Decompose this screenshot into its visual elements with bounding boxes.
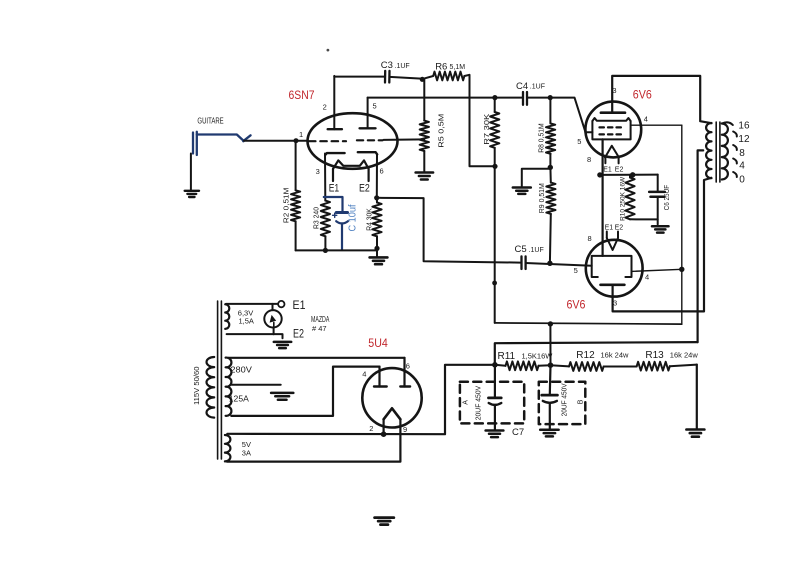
output transformer core xyxy=(715,122,717,182)
ground (pilot/heater winding) xyxy=(274,341,291,344)
node C3/R6/R5 junction xyxy=(420,77,425,82)
5U4 plate pin 4 xyxy=(374,385,387,387)
node R7 top xyxy=(492,95,497,100)
6V6 upper grid box xyxy=(592,121,630,139)
wire R13 end to ground xyxy=(696,365,698,429)
node R9 bottom / C5 junction xyxy=(547,261,552,266)
6V6 upper grid dashes xyxy=(600,127,621,134)
node R8 top xyxy=(548,95,553,100)
wire C4 to 6V6 grid xyxy=(527,98,592,133)
secondary taps xyxy=(722,122,737,177)
wire 5U4 pin 4 to HV bottom tap xyxy=(231,367,379,416)
capacitor C7-A 20UF 450V xyxy=(494,365,496,397)
output transformer center tap xyxy=(698,150,704,342)
power transformer T1 core xyxy=(217,301,219,459)
tube 6V6 V3 (lower) envelope xyxy=(586,240,643,297)
wire pin 6 to R4 top xyxy=(376,155,378,198)
svg-text:C 10uf: C 10uf xyxy=(347,204,359,231)
svg-text:20UF 450V: 20UF 450V xyxy=(475,385,482,420)
svg-text:GUITARE: GUITARE xyxy=(197,117,223,126)
wire screen tap down to B+ node2 xyxy=(549,324,551,365)
svg-text:R4 30K: R4 30K xyxy=(364,208,373,231)
wire B+ rail to OT center tap xyxy=(495,342,698,365)
svg-text:6V6: 6V6 xyxy=(567,300,586,312)
node R3 bottom junction xyxy=(323,248,328,253)
svg-text:16: 16 xyxy=(738,121,750,132)
pilot lamp MAZDA #47 xyxy=(264,310,281,327)
svg-text:E2: E2 xyxy=(615,225,624,232)
ground (cap A) xyxy=(486,429,504,432)
resistor R7 30K xyxy=(494,98,496,112)
node R4 bottom junction xyxy=(374,246,379,251)
wire pin 2 plate to C3 xyxy=(334,76,385,78)
svg-text:R7 30K: R7 30K xyxy=(482,114,491,145)
svg-text:C7: C7 xyxy=(512,427,524,438)
node R8/R9 junction xyxy=(548,165,553,170)
svg-text:.1UF: .1UF xyxy=(395,63,410,70)
dashed enclosure cap B xyxy=(539,382,586,424)
tube 6SN7 V1 envelope xyxy=(308,113,398,169)
wire screen rail horizontal xyxy=(495,323,682,324)
svg-text:8: 8 xyxy=(588,234,592,243)
wire pin 3 to R3 xyxy=(324,154,326,201)
6SN7 plate (triode 1) xyxy=(328,76,342,129)
node lower screen junction xyxy=(679,267,684,272)
svg-text:4: 4 xyxy=(645,272,649,281)
terminal E1 circle xyxy=(278,301,284,307)
6SN7 grid (triode 1, dashed) xyxy=(309,140,346,142)
wire lower screen pin 4 xyxy=(632,269,682,271)
6V6 upper heater xyxy=(605,146,619,158)
guitar input jack J1 xyxy=(193,132,251,155)
node B+ / R11 left xyxy=(492,362,498,368)
wire upper screen pin 4 xyxy=(631,124,682,126)
wire R10 bottom to C6 bottom xyxy=(630,218,658,220)
svg-text:0: 0 xyxy=(739,175,745,186)
svg-text:5: 5 xyxy=(373,102,377,111)
T1 primary winding 115V xyxy=(207,357,215,418)
svg-text:4: 4 xyxy=(739,160,745,171)
svg-text:R6: R6 xyxy=(435,61,447,72)
6V6 lower plate xyxy=(601,283,625,286)
6V6 lower grid box xyxy=(592,256,632,277)
svg-text:4: 4 xyxy=(644,114,648,123)
6SN7 grid (triode 2, dashed) + wire to R5 xyxy=(357,139,383,141)
wire 6V6 cathode line down xyxy=(601,139,603,256)
ground (HV center tap) xyxy=(271,392,293,395)
svg-text:R10 250K 16W: R10 250K 16W xyxy=(619,176,626,221)
svg-text:3A: 3A xyxy=(242,449,251,458)
floating ground (bottom center) xyxy=(375,516,394,519)
svg-text:5V: 5V xyxy=(242,440,251,449)
output transformer T2 primary coil xyxy=(706,123,711,178)
svg-text:MAZDA: MAZDA xyxy=(311,315,330,324)
svg-text:5: 5 xyxy=(574,266,578,275)
wire C3 to R6/R5 junction xyxy=(390,77,424,79)
dashed enclosure cap A xyxy=(460,382,524,424)
resistor R10 250K 16W xyxy=(629,175,631,178)
svg-text:8: 8 xyxy=(587,155,591,164)
capacitor C4 .1UF xyxy=(522,92,524,105)
svg-text:2: 2 xyxy=(369,424,373,433)
svg-text:E2: E2 xyxy=(615,167,624,174)
resistor R12 16k 24w xyxy=(551,365,570,366)
resistor R11 1,5K16W xyxy=(495,365,506,366)
svg-text:B: B xyxy=(577,399,584,404)
node pin 2 junction xyxy=(381,431,387,437)
ground (cap B) xyxy=(540,429,558,432)
svg-text:.1UF: .1UF xyxy=(530,84,545,91)
node R10 top xyxy=(630,172,635,177)
ground (input jack) xyxy=(185,190,199,192)
svg-text:E2: E2 xyxy=(359,182,370,194)
resistor R9 0,51M xyxy=(549,167,551,182)
svg-text:125A: 125A xyxy=(229,395,250,404)
svg-text:5: 5 xyxy=(577,137,581,146)
wire divider tap to ground xyxy=(522,169,551,187)
T1 HV winding 280V xyxy=(226,358,232,416)
svg-text:R12: R12 xyxy=(576,350,595,361)
svg-text:R13: R13 xyxy=(645,350,664,361)
svg-text:6: 6 xyxy=(406,362,410,371)
6SN7 cathode (triode 1) xyxy=(325,153,344,155)
wire R7 bottom down to screen rail xyxy=(494,166,496,323)
svg-text:C4: C4 xyxy=(516,81,528,92)
wire jack to pin 1 xyxy=(244,140,308,142)
6SN7 plate (triode 2) xyxy=(360,98,376,129)
wire screen rail vertical xyxy=(681,125,683,324)
wire upper plate to OT primary top xyxy=(612,76,711,123)
ground (below R5) xyxy=(416,171,434,174)
5U4 filament xyxy=(384,408,401,419)
ground (below R4) xyxy=(370,256,388,259)
wire 6,3V top tap to E1 xyxy=(226,303,278,305)
capacitor C 10uf (cathode bypass, blue) xyxy=(324,197,348,250)
svg-text:E1: E1 xyxy=(605,225,614,232)
resistor R13 16k 24w xyxy=(637,362,670,371)
svg-text:R2 0,51M: R2 0,51M xyxy=(282,188,291,224)
wire cathode to R10/C6 xyxy=(600,174,658,176)
svg-text:R11: R11 xyxy=(498,351,516,362)
resistor R3 240 xyxy=(321,201,330,237)
wire C5 to lower 6V6 grid xyxy=(526,263,592,266)
6V6 lower heater xyxy=(607,232,618,239)
resistor R6 5,1M xyxy=(433,72,464,81)
svg-text:1,5A: 1,5A xyxy=(239,316,254,325)
wire cathode bus R2-R3-R4 xyxy=(296,249,377,251)
wire 5U4 pin 6 to HV top tap xyxy=(228,357,404,359)
svg-text:2: 2 xyxy=(323,103,327,112)
svg-text:280V: 280V xyxy=(230,366,252,375)
wire HV center tap xyxy=(232,384,281,386)
capacitor C5 .1UF xyxy=(520,256,522,269)
svg-text:.1UF: .1UF xyxy=(529,247,544,254)
node cathode junction xyxy=(597,172,602,177)
svg-text:1: 1 xyxy=(299,130,303,139)
svg-text:A: A xyxy=(462,400,469,405)
tube 5U4 V4 envelope xyxy=(362,368,421,427)
5U4 plate pin 6 xyxy=(400,385,410,387)
svg-text:20UF 450V: 20UF 450V xyxy=(562,383,569,416)
capacitor C3 .1UF xyxy=(384,71,387,83)
resistor R4 30K xyxy=(372,203,381,237)
capacitor C7-B 20UF 450V xyxy=(549,365,552,394)
svg-text:5U4: 5U4 xyxy=(368,338,388,350)
svg-text:R3 240: R3 240 xyxy=(311,207,320,229)
wire 6,3V bottom tap to E2/ground xyxy=(227,334,283,338)
svg-text:6V6: 6V6 xyxy=(633,90,652,102)
svg-text:E1: E1 xyxy=(293,298,306,312)
svg-text:3: 3 xyxy=(316,167,320,176)
svg-text:16k 24w: 16k 24w xyxy=(670,350,699,359)
svg-text:9: 9 xyxy=(403,425,407,434)
6V6 upper plate xyxy=(601,111,625,114)
svg-text:6: 6 xyxy=(380,166,384,175)
ground (divider tap) xyxy=(513,186,531,189)
wire 5V top tap / B+ line xyxy=(227,365,495,434)
node screen rail tap xyxy=(548,321,553,326)
wire R4 top to C5 xyxy=(377,198,520,263)
svg-text:C3: C3 xyxy=(381,60,393,71)
svg-text:R8 0,51M: R8 0,51M xyxy=(536,123,545,153)
wire pin 9 to 5V bottom tap xyxy=(227,419,400,461)
ground (R13 end) xyxy=(686,428,704,431)
resistor R5 0,5M xyxy=(423,79,425,120)
svg-text:R5 0,5M: R5 0,5M xyxy=(436,114,445,148)
svg-text:# 47: # 47 xyxy=(312,324,327,333)
resistor R8 0,51M xyxy=(549,98,551,124)
svg-text:4: 4 xyxy=(362,369,366,378)
svg-text:8: 8 xyxy=(739,148,745,159)
T1 6,3V winding xyxy=(225,304,229,329)
svg-text:1,5K16W: 1,5K16W xyxy=(522,352,554,361)
stray ink dot xyxy=(327,49,330,52)
svg-text:E1: E1 xyxy=(329,182,340,194)
node R11/R12 junction xyxy=(548,362,554,368)
tube 6V6 V2 (upper) envelope xyxy=(585,102,641,158)
wire pin 5 rail to C4 xyxy=(368,97,523,99)
wire pin 2 to 5V top tap / B+ xyxy=(383,419,385,434)
capacitor C6 25UF xyxy=(657,175,659,192)
svg-text:12: 12 xyxy=(738,134,750,145)
svg-text:R9 0,51M: R9 0,51M xyxy=(537,183,546,213)
node R4 top junction xyxy=(374,195,379,200)
output transformer secondary coil xyxy=(722,124,728,180)
6SN7 heater filament xyxy=(333,160,369,169)
6SN7 cathode (triode 2) xyxy=(358,152,377,154)
svg-text:C5: C5 xyxy=(515,244,527,255)
svg-text:115V 50/60: 115V 50/60 xyxy=(192,367,201,406)
resistor R2 0,51M xyxy=(291,190,300,221)
svg-text:E2: E2 xyxy=(293,327,304,341)
node junction at R2 top xyxy=(294,138,299,143)
wire jack sleeve to ground xyxy=(190,154,192,190)
node R7 bottom / R6 junction xyxy=(492,164,497,169)
svg-text:5,1M: 5,1M xyxy=(450,64,466,71)
svg-text:E1: E1 xyxy=(603,167,612,174)
svg-text:C6 25UF: C6 25UF xyxy=(662,185,671,211)
wire R6 to R7 bottom xyxy=(464,75,495,167)
svg-text:16k 24w: 16k 24w xyxy=(601,350,630,359)
ground (below C6) xyxy=(652,225,669,228)
svg-text:6SN7: 6SN7 xyxy=(289,90,315,102)
T1 5V winding xyxy=(225,435,231,461)
wire lower plate to OT primary bottom xyxy=(613,178,712,312)
node (blob on screen feed line) xyxy=(492,281,497,286)
